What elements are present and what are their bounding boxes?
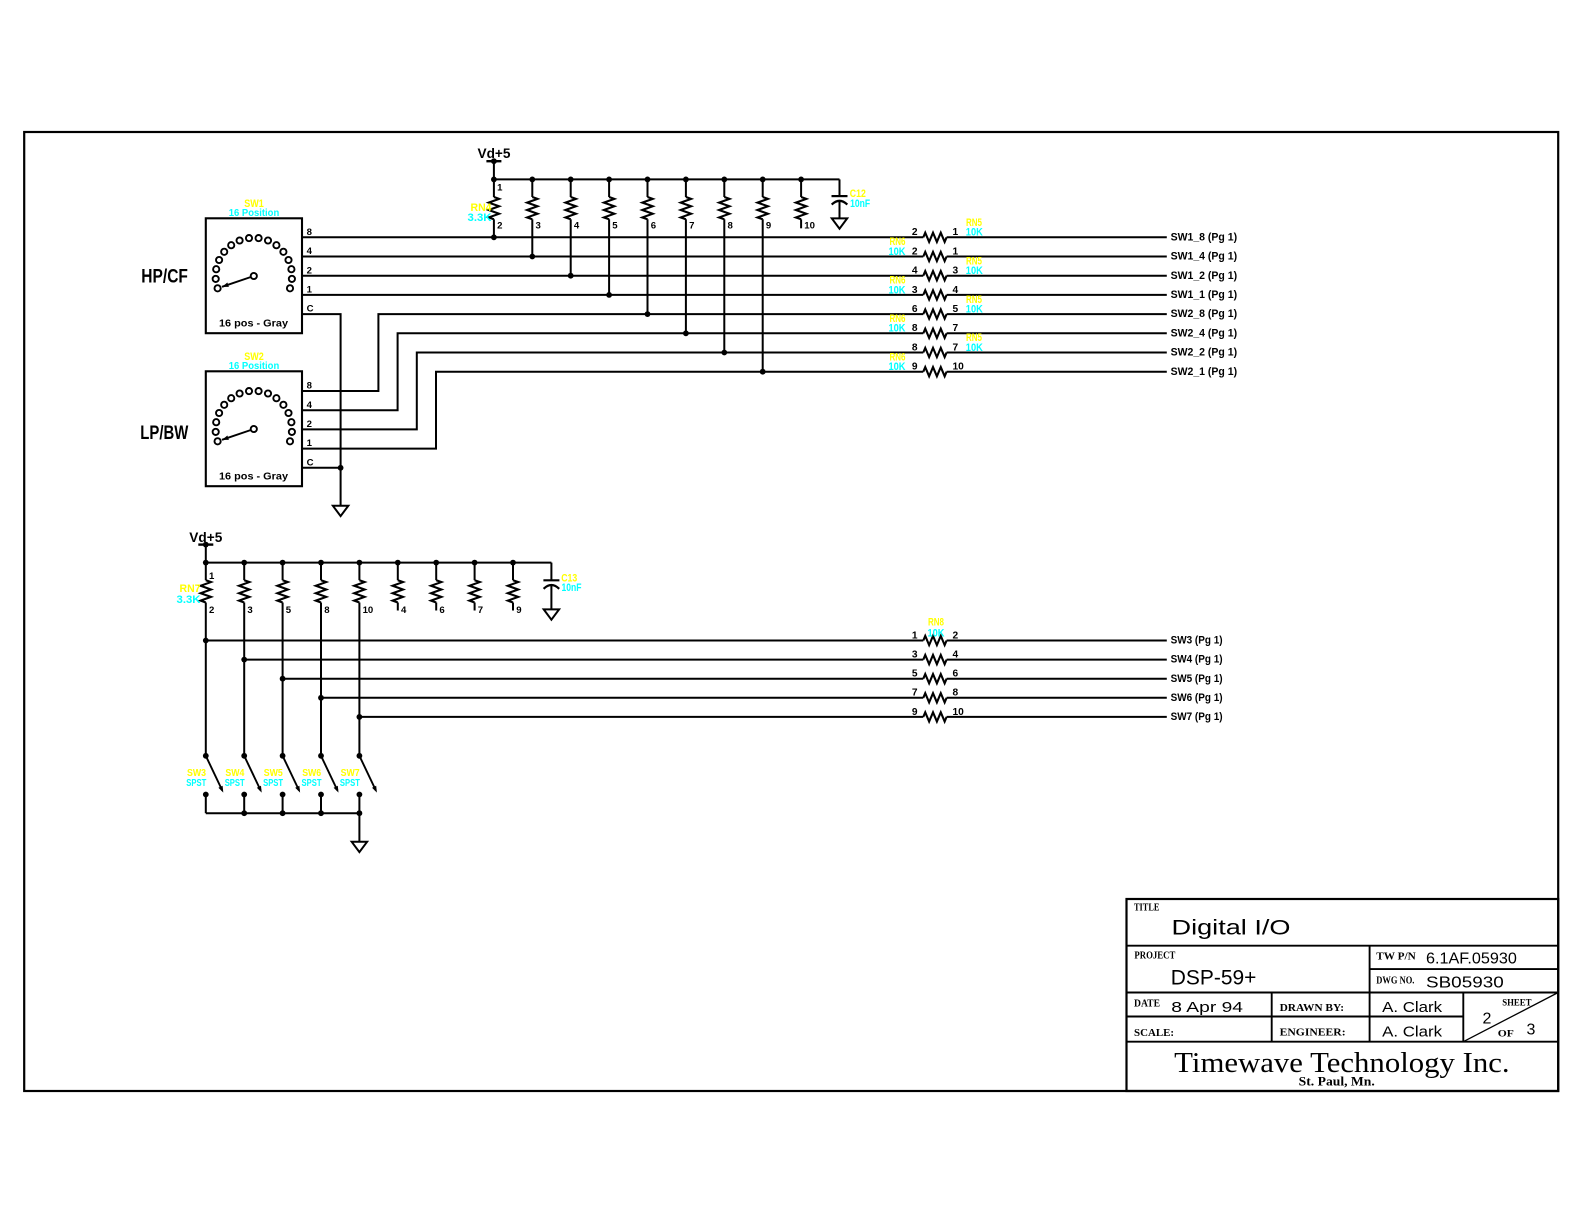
svg-text:1: 1 (953, 246, 959, 257)
svg-text:6: 6 (953, 669, 959, 680)
svg-text:4: 4 (307, 400, 313, 411)
svg-text:SW2_4 (Pg 1): SW2_4 (Pg 1) (1171, 327, 1238, 339)
label SW1 16 Position (229, 198, 280, 219)
svg-text:10K: 10K (966, 227, 983, 239)
svg-text:10: 10 (363, 605, 374, 616)
svg-text:2: 2 (497, 221, 502, 232)
svg-text:1: 1 (912, 630, 918, 641)
svg-text:1: 1 (953, 227, 959, 238)
svg-text:SB05930: SB05930 (1426, 975, 1504, 992)
svg-text:2: 2 (307, 419, 312, 430)
resistor RN7 element pin 5 3.3K (277, 563, 291, 756)
svg-text:4: 4 (953, 285, 959, 296)
junction RN4 to SW1_8 (491, 234, 497, 240)
svg-text:10K: 10K (889, 361, 906, 373)
svg-text:6.1AF.05930: 6.1AF.05930 (1426, 951, 1517, 968)
svg-text:8: 8 (324, 605, 330, 616)
svg-text:16 Position: 16 Position (229, 360, 280, 372)
rotary switch SW2 16-position (206, 371, 302, 486)
junction RN4 to SW2_1 (760, 369, 766, 375)
wire SW2_8 net (302, 314, 923, 391)
resistor RN5 element pins 4-3 10K (912, 266, 1167, 281)
svg-text:5: 5 (612, 221, 618, 232)
svg-text:7: 7 (953, 323, 959, 334)
svg-text:1: 1 (209, 571, 215, 582)
svg-text:SW1_4 (Pg 1): SW1_4 (Pg 1) (1171, 251, 1238, 263)
svg-text:A. Clark: A. Clark (1382, 1024, 1443, 1041)
label RN5 10K (row 7) (966, 332, 983, 354)
resistor RN7 element pin 4 3.3K (393, 563, 407, 616)
switch SW7 SPST (357, 753, 377, 813)
label SW4 SPST (225, 768, 245, 789)
switch SW5 SPST (280, 753, 300, 813)
svg-text:SW3 (Pg 1): SW3 (Pg 1) (1171, 635, 1223, 647)
svg-text:3.3K: 3.3K (468, 212, 492, 224)
wire SW4 net (244, 659, 923, 661)
svg-text:8: 8 (307, 227, 313, 238)
svg-text:DWG NO.: DWG NO. (1376, 976, 1415, 987)
svg-text:Digital I/O: Digital I/O (1172, 917, 1291, 940)
svg-text:SW5 (Pg 1): SW5 (Pg 1) (1171, 673, 1223, 685)
svg-text:7: 7 (912, 688, 918, 699)
resistor RN8 element pins 1-2 10K (912, 630, 1167, 645)
svg-text:1: 1 (307, 285, 313, 296)
label RN5 10K (row 1) (966, 217, 983, 239)
svg-text:4: 4 (574, 221, 580, 232)
svg-text:SW4 (Pg 1): SW4 (Pg 1) (1171, 654, 1223, 666)
resistor RN5 element pins 8-7 10K (912, 342, 1167, 357)
svg-text:6: 6 (651, 221, 656, 232)
wire SW5 net (283, 678, 924, 680)
svg-text:PROJECT: PROJECT (1134, 951, 1175, 962)
ground (below switches) (352, 842, 367, 852)
switch SW3 SPST (203, 753, 223, 813)
svg-text:SCALE:: SCALE: (1134, 1027, 1174, 1039)
resistor RN4 element pin 5 3.3K (604, 179, 618, 295)
svg-text:6: 6 (912, 304, 918, 315)
rotary switch SW1 16-position (206, 218, 302, 333)
svg-text:7: 7 (953, 342, 959, 353)
svg-text:16 pos - Gray: 16 pos - Gray (219, 472, 288, 483)
resistor RN7 element pin 9 3.3K (508, 563, 522, 616)
resistor RN8 element pins 3-4 10K (912, 650, 1167, 665)
svg-text:2: 2 (1483, 1010, 1492, 1027)
svg-text:HP/CF: HP/CF (141, 267, 188, 288)
svg-text:SW6 (Pg 1): SW6 (Pg 1) (1171, 692, 1223, 704)
wire SW1_2 net (302, 275, 923, 277)
label RN8 10K (928, 616, 945, 639)
svg-text:4: 4 (307, 246, 313, 257)
ground (below C13) (544, 609, 559, 619)
svg-text:C: C (307, 457, 314, 468)
ground (switch commons) (333, 506, 348, 516)
capacitor C12 10nF (832, 179, 871, 218)
wire SW1_1 net (302, 294, 923, 296)
junction RN4 to SW2_2 (721, 350, 727, 356)
svg-text:3: 3 (247, 605, 252, 616)
resistor RN8 element pins 5-6 10K (912, 669, 1167, 684)
svg-text:3: 3 (912, 285, 918, 296)
label SW5 SPST (263, 768, 283, 789)
ground (below C12) (832, 218, 847, 228)
svg-text:10nF: 10nF (850, 198, 870, 210)
label RN5 10K (row 5) (966, 294, 983, 316)
svg-text:10K: 10K (966, 342, 983, 354)
wire SW1 C to common (302, 314, 341, 506)
capacitor C13 10nF (543, 563, 581, 610)
label RN5 10K (row 3) (966, 255, 983, 277)
svg-text:9: 9 (516, 605, 521, 616)
label RN6 10K (row 6) (889, 313, 906, 335)
svg-text:10K: 10K (928, 627, 945, 639)
svg-text:16 Position: 16 Position (229, 207, 280, 219)
wire SW2_2 net (302, 353, 923, 430)
wire SW2 C to common (302, 467, 341, 469)
svg-text:SPST: SPST (186, 778, 206, 789)
svg-text:3: 3 (1527, 1022, 1536, 1039)
label RN6 10K (row 2) (889, 236, 906, 258)
svg-text:10K: 10K (966, 265, 983, 277)
svg-text:8: 8 (953, 688, 959, 699)
svg-text:5: 5 (953, 304, 959, 315)
svg-text:TW P/N: TW P/N (1376, 952, 1416, 963)
resistor RN7 element pin 8 3.3K (316, 563, 330, 756)
wire Vd+5 pull-up bus (top) (491, 177, 840, 183)
resistor RN5 element pins 6-5 10K (912, 304, 1167, 319)
label RN6 10K (row 8) (889, 351, 906, 373)
wire SW2_1 net (302, 372, 923, 449)
svg-text:10: 10 (804, 221, 815, 232)
resistor RN4 element pin 1-2 3.3K (489, 179, 503, 237)
svg-text:SW2_1 (Pg 1): SW2_1 (Pg 1) (1171, 366, 1238, 378)
svg-text:4: 4 (953, 650, 959, 661)
svg-text:1: 1 (497, 182, 503, 193)
label SW3 SPST (186, 768, 206, 789)
svg-text:8: 8 (307, 381, 313, 392)
junction C common (338, 465, 344, 471)
resistor RN6 element pins 8-7 10K (912, 323, 1167, 338)
resistor RN4 element pin 3 3.3K (527, 179, 541, 256)
svg-text:16 pos - Gray: 16 pos - Gray (219, 319, 288, 330)
resistor RN6 element pins 9-10 10K (912, 362, 1167, 377)
svg-text:10K: 10K (966, 304, 983, 316)
svg-text:3: 3 (912, 650, 918, 661)
svg-text:OF: OF (1498, 1029, 1514, 1039)
svg-text:SW2_2 (Pg 1): SW2_2 (Pg 1) (1171, 347, 1238, 359)
label RN4 3.3K (468, 202, 493, 224)
svg-text:SW1_1 (Pg 1): SW1_1 (Pg 1) (1171, 289, 1238, 301)
svg-text:DATE: DATE (1134, 999, 1160, 1010)
svg-text:SPST: SPST (340, 778, 360, 789)
svg-text:2: 2 (307, 265, 312, 276)
svg-text:4: 4 (912, 266, 918, 277)
svg-text:A. Clark: A. Clark (1382, 999, 1443, 1016)
svg-text:SW1_8 (Pg 1): SW1_8 (Pg 1) (1171, 231, 1238, 243)
svg-text:SHEET: SHEET (1502, 999, 1532, 1009)
svg-text:7: 7 (689, 221, 694, 232)
junction RN4 to SW1_1 (606, 292, 612, 298)
svg-text:2: 2 (912, 246, 918, 257)
svg-text:2: 2 (209, 605, 214, 616)
resistor RN5 element pins 2-1 10K (912, 227, 1167, 242)
wire SW3 net (206, 640, 924, 642)
resistor RN6 element pins 2-1 10K (912, 246, 1167, 261)
svg-text:9: 9 (766, 221, 771, 232)
resistor RN4 element pin 8 3.3K (719, 179, 733, 352)
svg-text:8: 8 (912, 342, 918, 353)
label SW6 SPST (302, 768, 322, 789)
svg-text:5: 5 (286, 605, 292, 616)
title block (1127, 899, 1559, 1091)
junction RN4 to SW1_2 (568, 273, 574, 279)
resistor RN7 element pin 10 3.3K (354, 563, 373, 756)
label RN6 10K (row 4) (889, 275, 906, 297)
wire SW1_4 net (302, 256, 923, 258)
svg-text:10K: 10K (889, 284, 906, 296)
svg-text:9: 9 (912, 707, 918, 718)
switch SW6 SPST (318, 753, 338, 813)
svg-text:TITLE: TITLE (1134, 903, 1160, 914)
svg-text:3: 3 (953, 266, 959, 277)
svg-text:SPST: SPST (225, 778, 245, 789)
wire SW6 net (321, 697, 923, 699)
svg-text:C: C (307, 304, 314, 315)
resistor RN4 element pin 6 3.3K (642, 179, 656, 314)
resistor RN7 element pin 3 3.3K (239, 563, 253, 756)
resistor RN8 element pins 9-10 10K (912, 707, 1167, 722)
junction RN4 to SW2_4 (683, 330, 689, 336)
svg-text:10K: 10K (889, 246, 906, 258)
wire switch ground bus (206, 810, 362, 842)
svg-text:2: 2 (953, 630, 959, 641)
label SW7 SPST (340, 768, 360, 789)
label SW2 16 Position (229, 351, 280, 372)
svg-text:ENGINEER:: ENGINEER: (1280, 1027, 1346, 1039)
svg-text:1: 1 (307, 438, 313, 449)
svg-text:DRAWN BY:: DRAWN BY: (1280, 1002, 1344, 1014)
switch SW4 SPST (241, 753, 261, 813)
svg-text:2: 2 (912, 227, 918, 238)
svg-text:3: 3 (536, 221, 541, 232)
svg-text:LP/BW: LP/BW (140, 423, 188, 444)
resistor RN6 element pins 3-4 10K (912, 285, 1167, 300)
power Vd+5 (bottom) (189, 530, 222, 563)
svg-text:SW2_8 (Pg 1): SW2_8 (Pg 1) (1171, 308, 1238, 320)
svg-text:4: 4 (401, 605, 407, 616)
resistor RN7 element pin 1-2 3.3K (201, 563, 215, 756)
svg-text:7: 7 (478, 605, 483, 616)
svg-text:DSP-59+: DSP-59+ (1171, 967, 1257, 990)
wire Vd+5 pull-up bus (bottom) (203, 560, 552, 566)
svg-text:8 Apr 94: 8 Apr 94 (1171, 999, 1243, 1016)
resistor RN4 element pin 7 3.3K (681, 179, 695, 333)
svg-text:SW7 (Pg 1): SW7 (Pg 1) (1171, 711, 1223, 723)
wire SW2_4 net (302, 333, 923, 410)
wire SW1_8 net (302, 236, 923, 238)
svg-text:8: 8 (728, 221, 734, 232)
svg-text:9: 9 (912, 362, 918, 373)
svg-text:SPST: SPST (263, 778, 283, 789)
svg-text:SW1_2 (Pg 1): SW1_2 (Pg 1) (1171, 270, 1238, 282)
resistor RN7 element pin 6 3.3K (431, 563, 445, 616)
junction RN4 to SW1_4 (529, 254, 535, 260)
svg-text:St. Paul, Mn.: St. Paul, Mn. (1299, 1073, 1375, 1088)
svg-text:10nF: 10nF (562, 582, 582, 594)
svg-text:10: 10 (953, 707, 965, 718)
svg-text:5: 5 (912, 669, 918, 680)
wire SW7 net (359, 716, 923, 718)
power Vd+5 (top) (478, 146, 511, 179)
label RN7 3.3K (177, 583, 201, 606)
svg-text:10K: 10K (889, 323, 906, 335)
resistor RN4 element pin 9 3.3K (758, 179, 772, 371)
resistor RN7 element pin 7 3.3K (469, 563, 483, 616)
resistor RN4 element pin 10 3.3K (796, 179, 815, 231)
svg-text:SPST: SPST (302, 778, 322, 789)
svg-text:6: 6 (439, 605, 444, 616)
svg-text:8: 8 (912, 323, 918, 334)
svg-text:10: 10 (953, 362, 965, 373)
junction RN4 to SW2_8 (645, 311, 651, 317)
svg-text:3.3K: 3.3K (177, 594, 201, 606)
resistor RN4 element pin 4 3.3K (566, 179, 580, 275)
resistor RN8 element pins 7-8 10K (912, 688, 1167, 703)
